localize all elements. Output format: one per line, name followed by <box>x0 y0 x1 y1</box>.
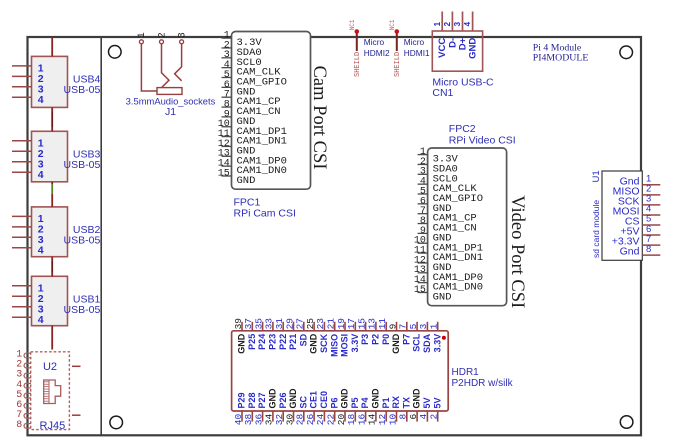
svg-text:PI4MODULE: PI4MODULE <box>533 52 589 63</box>
connector USB3 USB-05 <box>12 131 100 182</box>
header HDR1 P2HDR w/silk <box>232 318 514 426</box>
svg-text:FPC1: FPC1 <box>234 196 261 208</box>
svg-text:J1: J1 <box>165 106 176 118</box>
svg-text:P1: P1 <box>381 397 391 408</box>
svg-text:GND: GND <box>309 333 319 354</box>
svg-text:P25: P25 <box>247 334 257 350</box>
svg-text:P2HDR w/silk: P2HDR w/silk <box>452 378 514 389</box>
svg-text:Gnd: Gnd <box>620 246 640 258</box>
svg-text:1: 1 <box>429 323 440 329</box>
svg-text:8: 8 <box>646 244 651 255</box>
svg-text:HDR1: HDR1 <box>452 367 480 378</box>
wire USB4 to board edge <box>51 37 53 56</box>
svg-text:RJ45: RJ45 <box>40 420 66 432</box>
svg-text:1: 1 <box>433 21 442 26</box>
svg-text:P29: P29 <box>237 392 247 408</box>
svg-text:USB-05: USB-05 <box>64 84 101 96</box>
svg-text:GND: GND <box>288 388 298 409</box>
wire USB1 to U2 <box>51 326 53 350</box>
board inner divider line <box>100 37 102 435</box>
connector J1 3.5mmAudio_sockets <box>126 32 216 118</box>
svg-text:NC1: NC1 <box>349 19 356 30</box>
svg-text:15: 15 <box>218 168 230 179</box>
connector CN1 Micro USB-C <box>432 12 494 99</box>
svg-text:Micro: Micro <box>404 37 425 47</box>
svg-text:Micro: Micro <box>364 37 385 47</box>
connector FPC2 RPi Video CSI (Video Port CSI) <box>414 123 527 308</box>
svg-text:P28: P28 <box>247 392 257 408</box>
svg-text:4: 4 <box>38 169 44 181</box>
connector USB4 USB-05 <box>12 56 100 107</box>
svg-text:P24: P24 <box>257 334 267 350</box>
wire USB4 to USB3 <box>51 107 53 131</box>
svg-text:U1: U1 <box>591 170 602 182</box>
svg-text:GND: GND <box>340 388 350 409</box>
svg-text:8: 8 <box>16 420 22 431</box>
svg-text:P23: P23 <box>268 334 278 350</box>
svg-text:4: 4 <box>38 94 44 106</box>
svg-text:SHEILD: SHEILD <box>354 52 362 77</box>
svg-text:P5: P5 <box>350 397 360 408</box>
svg-text:RPi Cam CSI: RPi Cam CSI <box>234 208 296 220</box>
svg-text:P7: P7 <box>401 334 411 345</box>
svg-text:GND: GND <box>391 333 401 354</box>
connector FPC1 RPi Cam CSI (Cam Port CSI) <box>218 31 329 220</box>
svg-text:FPC2: FPC2 <box>449 123 476 135</box>
svg-text:P22: P22 <box>278 334 288 350</box>
svg-text:GND: GND <box>468 38 479 59</box>
svg-text:CN1: CN1 <box>432 87 453 99</box>
svg-text:P6: P6 <box>329 397 339 408</box>
svg-text:2: 2 <box>157 32 168 38</box>
mounting hole top-right <box>620 46 633 59</box>
svg-text:NC1: NC1 <box>389 19 396 30</box>
svg-text:MISO: MISO <box>329 334 339 357</box>
mounting hole top-left <box>109 46 122 59</box>
connector USB2 USB-05 <box>12 207 100 257</box>
svg-text:GND: GND <box>433 292 452 304</box>
svg-text:3.5mmAudio_sockets: 3.5mmAudio_sockets <box>126 96 216 107</box>
connector Micro HDMI1 <box>389 19 430 77</box>
svg-text:RPi Video CSI: RPi Video CSI <box>449 134 516 146</box>
label Pi 4 Module PI4MODULE <box>533 43 589 64</box>
svg-text:CE0: CE0 <box>319 391 329 409</box>
svg-text:3: 3 <box>177 32 188 38</box>
svg-text:P21: P21 <box>288 334 298 350</box>
svg-text:USB-05: USB-05 <box>64 159 101 171</box>
svg-text:sd card module: sd card module <box>591 200 601 258</box>
svg-text:4: 4 <box>38 314 44 326</box>
svg-text:3: 3 <box>453 21 462 26</box>
svg-text:SD: SD <box>298 333 308 346</box>
svg-text:4: 4 <box>463 21 472 26</box>
svg-text:CE1: CE1 <box>309 391 319 409</box>
svg-text:Video Port CSI: Video Port CSI <box>507 195 527 308</box>
svg-text:P3: P3 <box>360 334 370 345</box>
svg-text:3.3V: 3.3V <box>432 334 442 353</box>
svg-text:P4: P4 <box>360 397 370 408</box>
svg-text:SHEILD: SHEILD <box>394 52 402 77</box>
svg-text:15: 15 <box>414 285 426 296</box>
svg-text:RX: RX <box>391 396 401 409</box>
connector Micro HDMI2 <box>349 19 390 77</box>
svg-text:GND: GND <box>237 175 256 187</box>
svg-text:USB-05: USB-05 <box>64 304 101 316</box>
wire USB3 to USB2 (green segment) <box>51 182 53 207</box>
svg-text:U2: U2 <box>43 361 57 373</box>
svg-text:3.3V: 3.3V <box>350 334 360 353</box>
svg-text:Cam Port CSI: Cam Port CSI <box>309 66 329 170</box>
svg-text:HDMI1: HDMI1 <box>404 48 430 58</box>
svg-text:GND: GND <box>268 388 278 409</box>
svg-text:4: 4 <box>38 245 44 257</box>
svg-text:HDMI2: HDMI2 <box>364 48 390 58</box>
svg-text:P27: P27 <box>257 392 267 408</box>
svg-text:2: 2 <box>443 21 452 26</box>
svg-text:GND: GND <box>237 333 247 354</box>
svg-text:P0: P0 <box>381 334 391 345</box>
wire USB2 to USB1 <box>51 257 53 277</box>
svg-text:P26: P26 <box>278 392 288 408</box>
svg-text:GND: GND <box>412 388 422 409</box>
svg-text:GND: GND <box>371 388 381 409</box>
connector U2 RJ45 <box>16 350 80 432</box>
mounting hole bottom-right <box>620 416 633 429</box>
svg-text:MOSI: MOSI <box>340 334 350 357</box>
svg-text:USB-05: USB-05 <box>64 235 101 247</box>
svg-text:SC: SC <box>298 395 308 408</box>
svg-text:1: 1 <box>137 32 148 38</box>
svg-text:2: 2 <box>429 414 440 420</box>
module U1 sd card module <box>591 170 661 260</box>
svg-text:SCK: SCK <box>319 333 329 353</box>
svg-text:5V: 5V <box>422 397 432 408</box>
svg-text:SDA: SDA <box>422 333 432 353</box>
svg-text:TX: TX <box>401 397 411 409</box>
svg-text:5V: 5V <box>432 397 442 408</box>
svg-text:P2: P2 <box>371 334 381 345</box>
svg-text:SCL: SCL <box>412 333 422 352</box>
connector USB1 USB-05 <box>12 276 100 326</box>
mounting hole bottom-left <box>110 416 123 429</box>
